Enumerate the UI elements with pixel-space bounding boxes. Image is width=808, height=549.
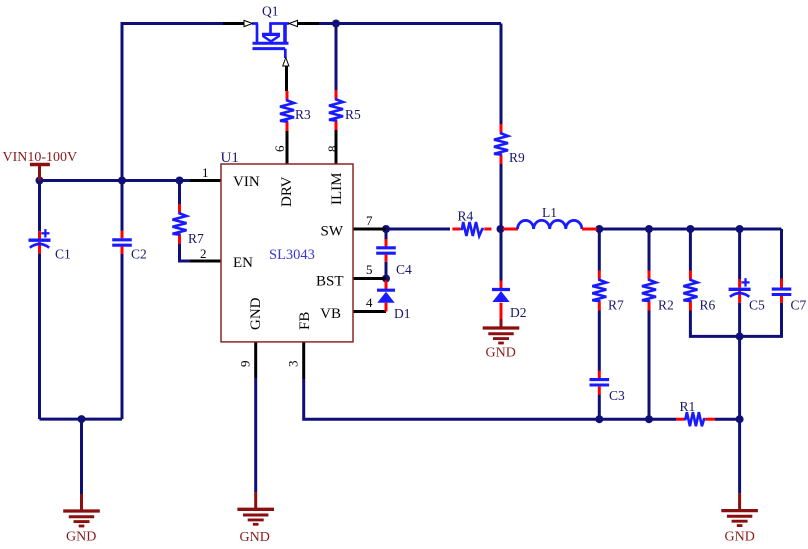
svg-text:L1: L1 bbox=[542, 205, 557, 220]
svg-text:EN: EN bbox=[233, 255, 253, 271]
svg-text:VIN10-100V: VIN10-100V bbox=[3, 150, 78, 165]
svg-text:2: 2 bbox=[200, 246, 207, 261]
svg-text:U1: U1 bbox=[221, 150, 239, 166]
svg-text:BST: BST bbox=[316, 274, 344, 290]
svg-text:1: 1 bbox=[202, 165, 209, 180]
svg-text:C7: C7 bbox=[791, 298, 807, 313]
svg-text:VB: VB bbox=[320, 306, 341, 322]
svg-text:ILIM: ILIM bbox=[329, 173, 345, 206]
svg-text:R3: R3 bbox=[295, 107, 311, 122]
svg-text:D2: D2 bbox=[510, 305, 527, 320]
svg-text:GND: GND bbox=[248, 297, 264, 330]
svg-text:VIN: VIN bbox=[233, 174, 260, 190]
svg-text:SW: SW bbox=[321, 224, 344, 240]
svg-text:R5: R5 bbox=[345, 107, 361, 122]
svg-text:C1: C1 bbox=[55, 247, 71, 262]
svg-text:C2: C2 bbox=[131, 247, 147, 262]
svg-text:3: 3 bbox=[286, 361, 301, 368]
svg-text:SL3043: SL3043 bbox=[269, 247, 315, 263]
svg-text:R2: R2 bbox=[658, 298, 674, 313]
svg-text:6: 6 bbox=[272, 145, 287, 152]
svg-text:Q1: Q1 bbox=[262, 4, 279, 19]
svg-text:GND: GND bbox=[486, 346, 516, 361]
svg-text:DRV: DRV bbox=[279, 176, 295, 207]
svg-text:GND: GND bbox=[66, 530, 96, 545]
svg-text:5: 5 bbox=[366, 262, 373, 277]
svg-text:R6: R6 bbox=[700, 298, 716, 313]
svg-text:C5: C5 bbox=[749, 298, 765, 313]
svg-text:GND: GND bbox=[725, 530, 755, 545]
svg-text:R1: R1 bbox=[680, 399, 696, 414]
svg-text:8: 8 bbox=[325, 146, 340, 153]
svg-text:R7: R7 bbox=[188, 231, 204, 246]
svg-text:C4: C4 bbox=[396, 262, 412, 277]
svg-text:FB: FB bbox=[297, 312, 313, 330]
svg-text:D1: D1 bbox=[394, 306, 411, 321]
svg-text:C3: C3 bbox=[609, 388, 625, 403]
svg-text:7: 7 bbox=[366, 213, 373, 228]
svg-text:9: 9 bbox=[238, 361, 253, 368]
svg-text:GND: GND bbox=[240, 530, 270, 544]
svg-text:R9: R9 bbox=[509, 150, 525, 165]
svg-text:R4: R4 bbox=[458, 209, 474, 224]
svg-text:4: 4 bbox=[366, 295, 373, 310]
svg-text:R7: R7 bbox=[608, 298, 624, 313]
